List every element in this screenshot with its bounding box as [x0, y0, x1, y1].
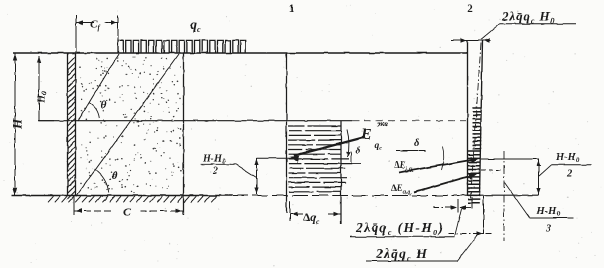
svg-text:H: H [10, 118, 25, 130]
label 2·lambda·qbar·q_c·(H-H0) [355, 220, 444, 237]
ground surface line [13, 52, 467, 54]
soil stipple dots [79, 57, 182, 194]
theta line (long diagonal from wall base) [76, 54, 179, 197]
label 2·lambda·qbar·q_c·H [375, 246, 428, 263]
leader to bracket [236, 164, 257, 177]
C dimension [74, 210, 114, 212]
vertical dash-dot reference x=504 [503, 151, 505, 241]
soil block right edge [183, 53, 185, 215]
vertical dimension line [256, 158, 258, 195]
svg-text:2: 2 [467, 3, 473, 15]
delta angle arc [347, 130, 349, 158]
svg-text:2: 2 [212, 166, 218, 177]
force arrow E_qc [294, 137, 366, 156]
horizontal to force point [257, 157, 294, 159]
svg-text:δ: δ [356, 147, 361, 157]
dimension delta-q_c [289, 201, 291, 221]
delta angle tick below [350, 151, 352, 163]
force arrow delta-E_i,qc [399, 159, 475, 172]
pressure diagram hatch (horizontal dashes) [288, 126, 352, 192]
ground hatch marks [48, 196, 217, 202]
svg-text:1: 1 [289, 3, 295, 15]
column right edge [480, 41, 483, 197]
retaining wall (hatched strip) [67, 53, 69, 196]
dimension Cf [117, 16, 119, 42]
base (foundation) line [12, 195, 232, 197]
column hatch rungs upper [473, 108, 482, 149]
column left edge [467, 41, 469, 197]
dashed line to centroid [481, 169, 504, 171]
section line 1 [286, 53, 288, 213]
force arrow delta-E_a,qc [414, 175, 474, 192]
svg-text:2λq̄qc (H-H0): 2λq̄qc (H-H0) [355, 220, 444, 237]
svg-text:3: 3 [545, 224, 551, 235]
distributed load q_c (comb of rectangles) [118, 40, 246, 53]
svg-text:2λq̄qc H: 2λq̄qc H [375, 246, 428, 263]
svg-text:2λq̄qc H0: 2λq̄qc H0 [501, 9, 555, 26]
dimension arrows at base widths [433, 207, 456, 209]
svg-text:2: 2 [566, 169, 573, 180]
svg-text:C: C [123, 205, 132, 219]
dimension H (left outer) [14, 53, 16, 196]
svg-text:δ: δ [414, 138, 420, 149]
H0 level line [38, 120, 352, 122]
svg-text:θ: θ [101, 100, 107, 112]
C dimension ticks [73, 196, 75, 215]
svg-text:θ: θ [112, 170, 118, 182]
svg-text:экв: экв [376, 120, 388, 129]
angle arc tick [442, 146, 444, 170]
column centerline (dash-dot, slanted) [471, 43, 482, 199]
theta arc upper [89, 103, 99, 118]
svg-text:E: E [360, 126, 372, 143]
theta line (upper diagonal from H0 level) [78, 54, 119, 121]
theta arc lower [95, 169, 109, 193]
label 2·lambda·qbar·q_c·H0 [501, 9, 555, 26]
column top edge and width arrows [468, 40, 483, 42]
dimension H0 (left inner) [38, 56, 40, 121]
pressure diagram right edge + tick [340, 121, 342, 224]
column hatch rungs lower [468, 151, 480, 203]
vertical dimension (H-H0)/2 right [538, 159, 540, 195]
wall face extension above ground [75, 15, 77, 53]
base width tick marks [457, 199, 459, 212]
label (H-H0)/3 [505, 183, 530, 218]
horizontal at force level [481, 158, 539, 160]
